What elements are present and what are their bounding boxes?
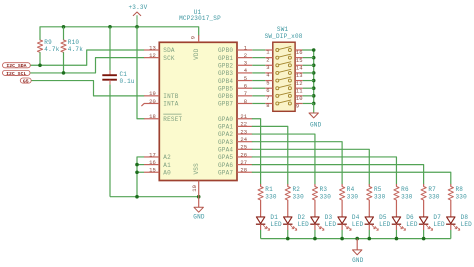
svg-text:INTA: INTA xyxy=(163,101,178,108)
pin 24 GPA3 xyxy=(218,136,252,146)
svg-text:GPA0: GPA0 xyxy=(218,116,233,123)
svg-text:3: 3 xyxy=(266,64,269,71)
LED D5 xyxy=(365,214,391,239)
svg-text:D7: D7 xyxy=(433,214,441,221)
junction cathode rail D4 xyxy=(340,237,344,241)
pin 18 RESET xyxy=(144,113,183,123)
svg-text:GPA2: GPA2 xyxy=(218,131,233,138)
LED D2 xyxy=(283,214,309,239)
svg-text:GPA4: GPA4 xyxy=(218,147,233,154)
svg-text:0.1u: 0.1u xyxy=(120,78,135,85)
svg-text:R1: R1 xyxy=(265,186,273,193)
pin 13 SDA xyxy=(144,44,175,54)
svg-text:22: 22 xyxy=(240,121,247,128)
svg-text:SW_DIP_x08: SW_DIP_x08 xyxy=(265,33,303,40)
svg-text:9: 9 xyxy=(190,36,197,39)
wire GPB5 to SW1 xyxy=(252,87,265,89)
svg-text:11: 11 xyxy=(296,87,303,94)
pin 1 GPB0 xyxy=(218,44,252,54)
svg-text:LED: LED xyxy=(406,221,418,228)
svg-text:R3: R3 xyxy=(320,186,328,193)
svg-text:SDA: SDA xyxy=(163,47,175,54)
ground below SW1 xyxy=(309,103,322,128)
svg-text:330: 330 xyxy=(401,193,413,200)
junction SW1 rail 12 xyxy=(312,79,316,83)
svg-text:VSS: VSS xyxy=(193,163,200,175)
svg-text:8: 8 xyxy=(244,98,247,105)
junction on rail at +3.3V xyxy=(135,25,139,29)
svg-text:D6: D6 xyxy=(406,214,414,221)
svg-text:16: 16 xyxy=(149,159,156,166)
svg-text:2: 2 xyxy=(266,56,269,63)
svg-text:LED: LED xyxy=(461,221,473,228)
svg-text:C1: C1 xyxy=(120,71,128,78)
wire A2 A1 A0 tie xyxy=(137,157,144,197)
resistor R2 xyxy=(285,184,304,217)
capacitor C1 xyxy=(102,27,135,197)
junction cathode rail GND tap xyxy=(355,237,359,241)
switch SW1 pole 2 xyxy=(265,54,303,64)
ground below VSS xyxy=(193,197,205,221)
ground below LED rail xyxy=(352,239,364,264)
svg-text:GND: GND xyxy=(352,257,364,264)
junction A1 xyxy=(135,163,139,167)
svg-text:D8: D8 xyxy=(461,214,469,221)
svg-text:330: 330 xyxy=(320,193,332,200)
svg-text:R10: R10 xyxy=(68,39,80,46)
svg-text:25: 25 xyxy=(240,144,247,151)
resistor R1 xyxy=(258,184,277,217)
pin 4 GPB3 xyxy=(218,67,252,77)
svg-text:LED: LED xyxy=(433,221,445,228)
svg-text:17: 17 xyxy=(149,151,156,158)
junction on rail at R10 xyxy=(62,25,66,29)
svg-text:D3: D3 xyxy=(325,214,333,221)
junction cathode rail D5 xyxy=(367,237,371,241)
svg-text:VDD: VDD xyxy=(193,48,200,60)
wire GPA0 to R1 xyxy=(252,119,260,184)
svg-text:GPB5: GPB5 xyxy=(218,85,233,92)
svg-text:GPA7: GPA7 xyxy=(218,169,233,176)
wire LED cathode rail xyxy=(261,238,451,240)
wire GPA6 to R7 xyxy=(252,165,423,184)
wire G5 to pin INTB xyxy=(32,81,144,96)
junction SW1 rail 16 xyxy=(312,48,316,52)
pin 7 GPB6 xyxy=(218,90,252,100)
wire GPB4 to SW1 xyxy=(252,80,265,82)
wire GPB2 to SW1 xyxy=(252,64,265,66)
pin 27 GPA6 xyxy=(218,159,252,169)
resistor R9 xyxy=(37,27,59,65)
svg-text:R6: R6 xyxy=(401,186,409,193)
svg-text:+3.3V: +3.3V xyxy=(128,4,147,11)
svg-text:4.7k: 4.7k xyxy=(44,46,59,53)
svg-text:GPA3: GPA3 xyxy=(218,139,233,146)
svg-text:GND: GND xyxy=(310,122,322,129)
junction SW1 rail 9 xyxy=(312,102,316,106)
svg-text:LED: LED xyxy=(379,221,391,228)
svg-text:LED: LED xyxy=(325,221,337,228)
pin 17 A2 xyxy=(144,151,171,161)
svg-text:GPB2: GPB2 xyxy=(218,62,233,69)
resistor R4 xyxy=(340,184,359,217)
svg-text:GPB3: GPB3 xyxy=(218,70,233,77)
svg-text:D4: D4 xyxy=(352,214,360,221)
svg-text:24: 24 xyxy=(240,136,247,143)
wire GPA7 to R8 xyxy=(252,172,450,184)
switch SW1 body xyxy=(265,26,303,111)
switch SW1 pole 4 xyxy=(265,69,303,79)
wire I2C_SDA to pin SDA xyxy=(31,50,144,65)
wire SW1 common rail xyxy=(303,50,314,103)
pin 5 GPB4 xyxy=(218,75,252,85)
svg-text:13: 13 xyxy=(149,44,156,51)
svg-text:D2: D2 xyxy=(298,214,306,221)
svg-text:SW1: SW1 xyxy=(277,26,289,33)
junction A0 xyxy=(135,170,139,174)
svg-text:GPB7: GPB7 xyxy=(218,101,233,108)
svg-text:16: 16 xyxy=(296,49,303,56)
wire SW1 pin 15 to rail xyxy=(303,57,314,59)
LED D8 xyxy=(446,214,472,239)
svg-text:330: 330 xyxy=(455,193,467,200)
resistor R6 xyxy=(394,184,413,217)
pin 20 INTA xyxy=(141,98,178,108)
switch SW1 pole 1 xyxy=(265,46,303,56)
svg-text:1: 1 xyxy=(244,44,248,51)
svg-text:A0: A0 xyxy=(163,169,171,176)
svg-text:15: 15 xyxy=(149,167,156,174)
svg-text:23: 23 xyxy=(240,128,247,135)
junction SW1 rail 13 xyxy=(312,71,316,75)
svg-text:19: 19 xyxy=(149,90,156,97)
svg-text:21: 21 xyxy=(240,113,247,120)
wire GPB7 to SW1 xyxy=(252,102,265,104)
switch SW1 pole 3 xyxy=(265,62,303,72)
wire SW1 pin 10 to rail xyxy=(303,95,314,97)
pin 12 SCK xyxy=(144,52,175,62)
svg-text:R2: R2 xyxy=(292,186,300,193)
svg-text:R5: R5 xyxy=(374,186,382,193)
resistor R7 xyxy=(421,184,440,217)
pin 2 GPB1 xyxy=(218,52,252,62)
net flag G5 xyxy=(20,78,32,84)
svg-text:12: 12 xyxy=(296,80,303,87)
svg-text:SCK: SCK xyxy=(163,55,175,62)
svg-text:7: 7 xyxy=(244,90,247,97)
svg-text:R7: R7 xyxy=(428,186,436,193)
junction SW1 rail 10 xyxy=(312,94,316,98)
svg-text:330: 330 xyxy=(292,193,304,200)
svg-text:10: 10 xyxy=(296,95,303,102)
svg-text:6: 6 xyxy=(244,83,247,90)
svg-text:330: 330 xyxy=(428,193,440,200)
svg-text:D1: D1 xyxy=(270,214,278,221)
wire ground bus to VSS xyxy=(110,196,199,198)
resistor R10 xyxy=(61,27,83,73)
junction A-tie at ground bus xyxy=(135,195,139,199)
svg-text:8: 8 xyxy=(266,102,269,109)
resistor R8 xyxy=(448,184,467,217)
pin 28 GPA7 xyxy=(218,167,252,177)
svg-text:RESET: RESET xyxy=(163,116,182,123)
pin 6 GPB5 xyxy=(218,83,252,93)
svg-text:D5: D5 xyxy=(379,214,387,221)
net flag I2C_SCL xyxy=(3,70,31,76)
svg-text:26: 26 xyxy=(240,151,247,158)
junction SW1 rail 15 xyxy=(312,56,316,60)
junction VSS at ground bus xyxy=(197,195,201,199)
wire GPB0 to SW1 xyxy=(252,49,265,51)
svg-text:LED: LED xyxy=(352,221,364,228)
svg-text:14: 14 xyxy=(296,64,303,71)
svg-text:I2C_SCL: I2C_SCL xyxy=(6,71,26,77)
junction SW1 rail 11 xyxy=(312,86,316,90)
svg-text:3: 3 xyxy=(244,60,247,67)
wire SW1 pin 13 to rail xyxy=(303,72,314,74)
svg-text:5: 5 xyxy=(266,79,269,86)
svg-text:GPB1: GPB1 xyxy=(218,55,233,62)
pin 10 VSS xyxy=(191,163,200,197)
svg-text:330: 330 xyxy=(265,193,277,200)
svg-text:15: 15 xyxy=(296,57,303,64)
pin 9 VDD xyxy=(190,35,200,60)
svg-text:LED: LED xyxy=(298,221,310,228)
svg-text:INTB: INTB xyxy=(163,93,178,100)
svg-text:12: 12 xyxy=(149,52,156,59)
svg-text:13: 13 xyxy=(296,72,303,79)
svg-text:GPB0: GPB0 xyxy=(218,47,233,54)
pin 3 GPB2 xyxy=(218,60,252,70)
pin 23 GPA2 xyxy=(218,128,252,138)
pin 21 GPA0 xyxy=(218,113,252,123)
pin 19 INTB xyxy=(144,90,179,100)
pin 16 A1 xyxy=(144,159,171,169)
pin 25 GPA4 xyxy=(218,144,252,154)
wire GPA3 to R4 xyxy=(252,142,342,184)
svg-text:GPB6: GPB6 xyxy=(218,93,233,100)
svg-text:4: 4 xyxy=(244,67,248,74)
pin 15 A0 xyxy=(144,167,171,177)
wire GPA1 to R2 xyxy=(252,126,287,184)
wire GPA5 to R6 xyxy=(252,157,396,184)
LED D3 xyxy=(310,214,336,239)
switch SW1 pole 5 xyxy=(265,77,303,87)
junction on rail at C1 xyxy=(108,25,112,29)
power +3.3V xyxy=(128,4,147,27)
wire +3.3V to pin RESET xyxy=(137,27,144,119)
svg-text:7: 7 xyxy=(266,95,269,102)
svg-text:GND: GND xyxy=(193,214,205,221)
wire I2C_SCL to pin SCK xyxy=(31,58,144,73)
svg-text:G5: G5 xyxy=(23,78,29,84)
svg-text:1: 1 xyxy=(266,49,270,56)
svg-text:A2: A2 xyxy=(163,154,171,161)
wire GPB1 to SW1 xyxy=(252,57,265,59)
junction cathode rail D2 xyxy=(286,237,290,241)
wire GPB6 to SW1 xyxy=(252,95,265,97)
pin 22 GPA1 xyxy=(218,121,252,131)
wire +3.3V top rail xyxy=(40,27,199,35)
svg-text:28: 28 xyxy=(240,167,247,174)
svg-text:4.7k: 4.7k xyxy=(68,46,83,53)
junction cathode rail D3 xyxy=(313,237,317,241)
svg-text:20: 20 xyxy=(149,98,156,105)
svg-text:9: 9 xyxy=(296,103,299,110)
junction SW1 rail 14 xyxy=(312,63,316,67)
svg-text:GPA5: GPA5 xyxy=(218,154,233,161)
LED D1 xyxy=(256,214,282,239)
wire GPA4 to R5 xyxy=(252,149,369,184)
op-amp U1 MCP23017_SP body xyxy=(159,9,237,181)
junction I2C_SCL at R10 xyxy=(62,71,66,75)
svg-text:4: 4 xyxy=(266,72,270,79)
junction cathode rail D7 xyxy=(422,237,426,241)
svg-text:GPB4: GPB4 xyxy=(218,78,233,85)
svg-text:GPA6: GPA6 xyxy=(218,162,233,169)
svg-text:330: 330 xyxy=(374,193,386,200)
LED D7 xyxy=(419,214,445,239)
wire GPB3 to SW1 xyxy=(252,72,265,74)
junction I2C_SDA at R9 xyxy=(38,63,42,67)
svg-text:27: 27 xyxy=(240,159,247,166)
svg-text:A1: A1 xyxy=(163,162,171,169)
svg-text:MCP23017_SP: MCP23017_SP xyxy=(179,15,221,22)
pin 26 GPA5 xyxy=(218,151,252,161)
svg-text:R8: R8 xyxy=(455,186,463,193)
svg-text:10: 10 xyxy=(191,185,198,192)
svg-text:GPA1: GPA1 xyxy=(218,124,233,131)
svg-text:330: 330 xyxy=(347,193,359,200)
svg-text:I2C_SDA: I2C_SDA xyxy=(6,63,26,69)
svg-text:5: 5 xyxy=(244,75,247,82)
svg-text:R9: R9 xyxy=(44,39,52,46)
switch SW1 pole 6 xyxy=(265,85,303,95)
svg-text:LED: LED xyxy=(270,221,282,228)
wire SW1 pin 14 to rail xyxy=(303,64,314,66)
net flag I2C_SDA xyxy=(3,63,32,69)
switch SW1 pole 7 xyxy=(265,92,303,102)
LED D6 xyxy=(392,214,418,239)
resistor R3 xyxy=(312,184,331,217)
wire SW1 pin 9 to rail xyxy=(303,102,314,104)
wire GPA2 to R3 xyxy=(252,134,315,184)
LED D4 xyxy=(337,214,363,239)
resistor R5 xyxy=(367,184,386,217)
wire SW1 pin 11 to rail xyxy=(303,87,314,89)
junction cathode rail D6 xyxy=(395,237,399,241)
switch SW1 pole 8 xyxy=(265,100,303,110)
svg-text:2: 2 xyxy=(244,52,247,59)
pin 8 GPB7 xyxy=(218,98,252,108)
svg-text:6: 6 xyxy=(266,87,269,94)
wire SW1 pin 12 to rail xyxy=(303,80,314,82)
svg-text:18: 18 xyxy=(149,113,156,120)
svg-text:R4: R4 xyxy=(347,186,355,193)
